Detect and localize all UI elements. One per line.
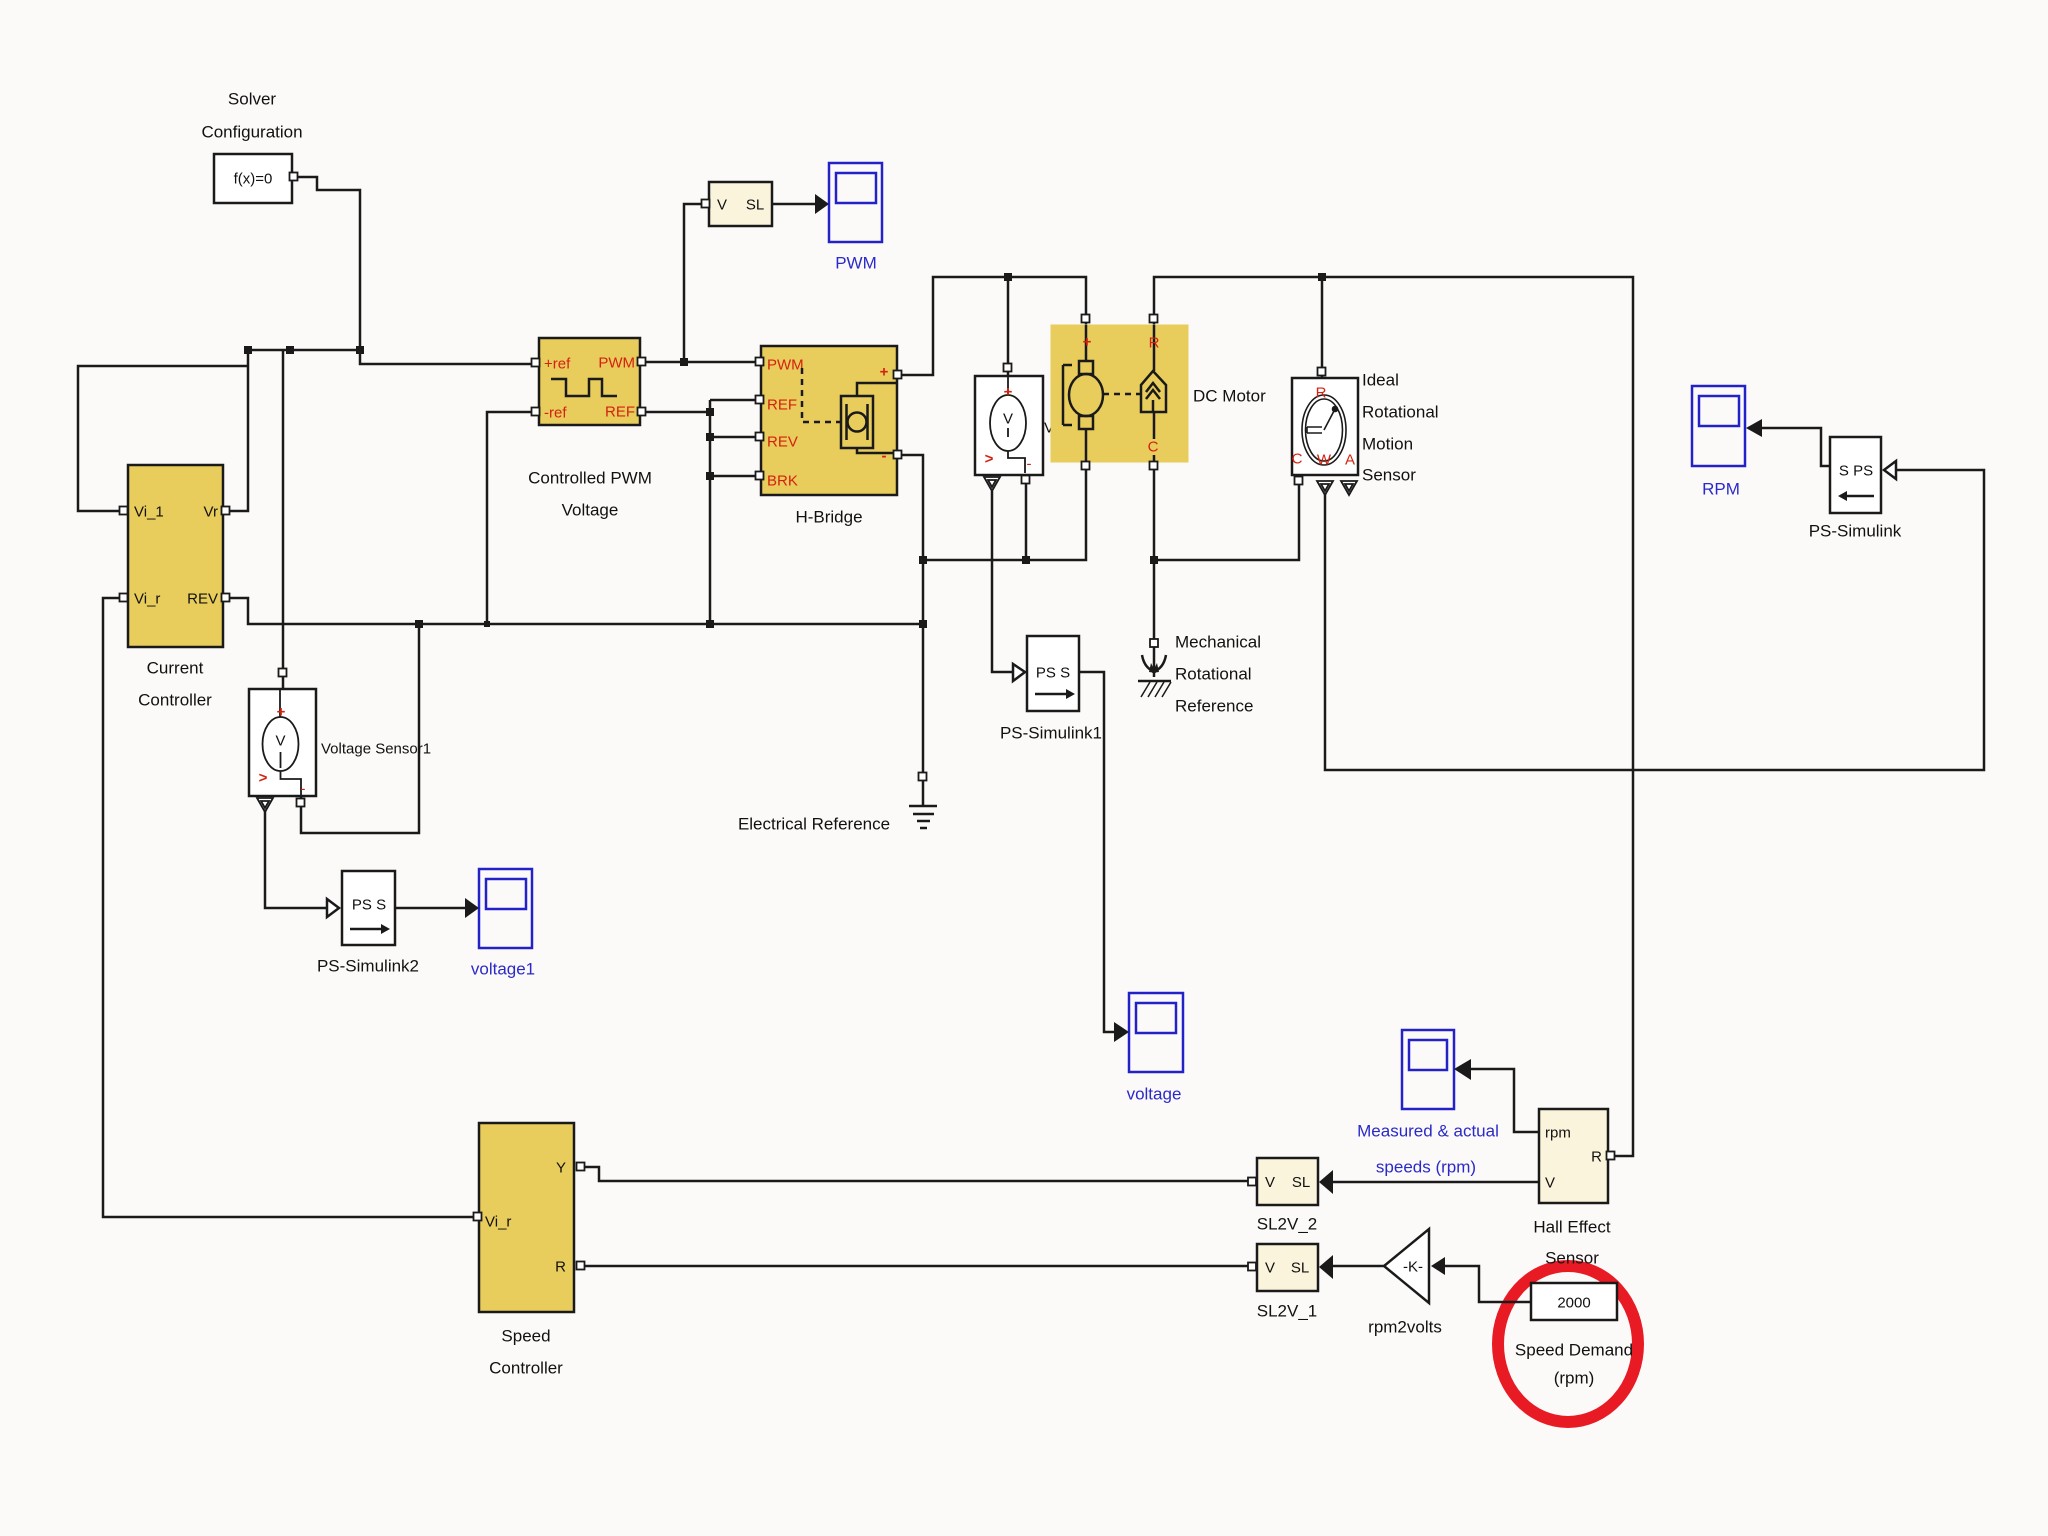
svg-text:SL: SL [1291, 1260, 1309, 1277]
svg-text:Controller: Controller [489, 1359, 563, 1378]
svg-text:PS S: PS S [1036, 665, 1070, 682]
svg-text:Measured & actual: Measured & actual [1357, 1122, 1499, 1141]
svg-text:-: - [301, 781, 306, 798]
svg-text:rpm2volts: rpm2volts [1368, 1318, 1442, 1337]
svg-text:-ref: -ref [544, 405, 567, 422]
svg-text:V: V [275, 733, 285, 750]
svg-text:Y: Y [556, 1160, 566, 1177]
svg-text:C: C [1292, 451, 1303, 468]
svg-text:REV: REV [187, 591, 218, 608]
svg-text:BRK: BRK [767, 473, 798, 490]
svg-text:+ref: +ref [544, 356, 571, 373]
svg-text:SL2V_2: SL2V_2 [1257, 1215, 1318, 1234]
svg-text:REF: REF [767, 397, 797, 414]
svg-text:Sensor: Sensor [1362, 466, 1416, 485]
svg-text:f(x)=0: f(x)=0 [234, 171, 273, 188]
svg-text:Voltage: Voltage [562, 501, 619, 520]
svg-text:V: V [717, 197, 727, 214]
svg-text:Vi_r: Vi_r [134, 591, 160, 608]
svg-text:R: R [1591, 1149, 1602, 1166]
svg-text:V: V [1003, 411, 1013, 428]
svg-text:V: V [1265, 1260, 1275, 1277]
svg-text:+: + [1004, 384, 1013, 401]
svg-text:SL: SL [746, 197, 764, 214]
svg-text:2000: 2000 [1557, 1295, 1590, 1312]
svg-text:speeds (rpm): speeds (rpm) [1376, 1158, 1476, 1177]
svg-text:Solver: Solver [228, 90, 277, 109]
svg-text:A: A [1345, 452, 1355, 469]
svg-text:Speed Demand: Speed Demand [1515, 1341, 1633, 1360]
svg-text:PWM: PWM [767, 357, 804, 374]
svg-text:Vi_r: Vi_r [485, 1214, 511, 1231]
svg-text:V: V [1545, 1175, 1555, 1192]
svg-text:SL: SL [1292, 1174, 1310, 1191]
svg-text:Mechanical: Mechanical [1175, 633, 1261, 652]
svg-text:Sensor: Sensor [1545, 1249, 1599, 1268]
svg-text:S PS: S PS [1839, 463, 1873, 480]
svg-text:Motion: Motion [1362, 435, 1413, 454]
svg-text:H-Bridge: H-Bridge [795, 508, 862, 527]
svg-text:+: + [277, 704, 286, 721]
svg-text:V: V [1265, 1174, 1275, 1191]
svg-text:+: + [1083, 334, 1092, 351]
svg-text:REV: REV [767, 434, 798, 451]
svg-text:SL2V_1: SL2V_1 [1257, 1302, 1318, 1321]
svg-text:PS-Simulink: PS-Simulink [1809, 522, 1902, 541]
svg-text:Ideal: Ideal [1362, 371, 1399, 390]
svg-text:PWM: PWM [598, 355, 635, 372]
svg-text:Reference: Reference [1175, 697, 1253, 716]
svg-text:(rpm): (rpm) [1554, 1369, 1595, 1388]
svg-text:rpm: rpm [1545, 1125, 1571, 1142]
svg-text:C: C [1148, 439, 1159, 456]
svg-text:R: R [1316, 385, 1327, 402]
svg-text:Voltage Sensor1: Voltage Sensor1 [321, 741, 431, 758]
svg-text:-: - [882, 448, 887, 465]
svg-text:Rotational: Rotational [1362, 403, 1439, 422]
svg-text:Electrical Reference: Electrical Reference [738, 815, 890, 834]
svg-text:Configuration: Configuration [201, 123, 302, 142]
svg-text:PS-Simulink2: PS-Simulink2 [317, 957, 419, 976]
svg-text:-: - [1027, 456, 1032, 473]
svg-text:voltage1: voltage1 [471, 960, 535, 979]
svg-text:R: R [1149, 335, 1160, 352]
svg-text:>: > [985, 451, 994, 468]
svg-text:voltage: voltage [1127, 1085, 1182, 1104]
svg-text:+: + [880, 364, 889, 381]
svg-text:DC Motor: DC Motor [1193, 387, 1266, 406]
svg-text:Current: Current [147, 659, 204, 678]
svg-text:PS-Simulink1: PS-Simulink1 [1000, 724, 1102, 743]
svg-text:Speed: Speed [501, 1327, 550, 1346]
svg-text:PS S: PS S [352, 897, 386, 914]
svg-text:Hall Effect: Hall Effect [1533, 1218, 1610, 1237]
svg-text:>: > [259, 770, 268, 787]
svg-text:W: W [1317, 452, 1332, 469]
svg-text:R: R [555, 1259, 566, 1276]
svg-text:RPM: RPM [1702, 480, 1740, 499]
svg-text:Controlled PWM: Controlled PWM [528, 469, 652, 488]
svg-text:PWM: PWM [835, 254, 877, 273]
svg-text:Rotational: Rotational [1175, 665, 1252, 684]
svg-text:Vr: Vr [204, 504, 218, 521]
svg-text:Vi_1: Vi_1 [134, 504, 164, 521]
svg-text:Controller: Controller [138, 691, 212, 710]
svg-text:-K-: -K- [1403, 1259, 1423, 1276]
svg-text:REF: REF [605, 404, 635, 421]
